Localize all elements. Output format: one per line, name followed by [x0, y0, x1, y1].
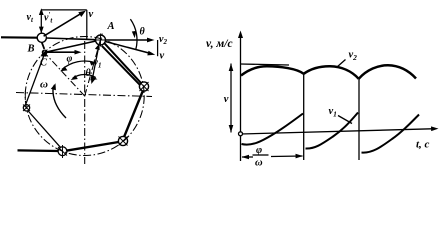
link bottomleft-left (second position, thin): [28, 111, 60, 147]
period boundary vertical 1: [303, 74, 305, 160]
svg-text:θ: θ: [86, 68, 92, 79]
roller B: [37, 33, 46, 42]
link bottomright-bottomleft: [67, 142, 119, 151]
joint C (filled mark): [40, 50, 47, 57]
svg-text:C: C: [40, 58, 48, 69]
v dimension line with arrows: [230, 64, 232, 133]
roller left (second position): [23, 105, 29, 111]
vector v2 at A (horizontal): [106, 39, 152, 41]
vector v at B (diagonal): [44, 12, 84, 36]
roller A: [96, 35, 106, 45]
top chain run (incoming): [1, 36, 37, 39]
svg-text:θ: θ: [140, 27, 146, 38]
svg-text:A: A: [107, 21, 115, 32]
radius O-C (dash-dot): [42, 50, 85, 97]
parallelogram right side at A: [157, 40, 159, 56]
svg-text:v: v: [224, 94, 229, 105]
sprocket pitch circle (dash-dot): [25, 37, 144, 156]
horizontal component arrow at C: [47, 51, 78, 53]
svg-text:v: v: [89, 9, 94, 20]
v2 curve scallop 1: [241, 66, 304, 75]
tick at circle/axis intersection left: [24, 92, 26, 101]
angle arc theta (lower, at center): [73, 75, 96, 79]
svg-text:t, с: t, с: [416, 139, 430, 151]
v2 curve scallop 3: [359, 65, 416, 79]
svg-text:v, м/с: v, м/с: [206, 38, 233, 50]
radius O-A (dash-dot): [85, 34, 103, 97]
vector v1 at A (along radius toward O): [92, 46, 99, 82]
parallelogram top side: [41, 9, 87, 11]
period boundary vertical 2: [358, 79, 360, 160]
roller right: [139, 82, 148, 91]
svg-text:ω: ω: [255, 158, 263, 169]
v1 sawtooth 1: [242, 114, 304, 145]
svg-text:ω: ω: [40, 79, 48, 91]
link C-A: [47, 41, 96, 52]
phi/omega dimension arrows: [242, 156, 253, 158]
center vertical axis: [84, 41, 86, 164]
roller bottom-right: [118, 136, 127, 145]
roller bottom-left: [58, 147, 67, 156]
v level line: [241, 64, 290, 65]
v2 curve scallop 2: [304, 66, 359, 79]
angle arc phi (between O-C and O-A radii): [62, 61, 95, 69]
bottom chain run (outgoing): [18, 149, 59, 152]
parallelogram right side: [86, 10, 88, 39]
svg-text:v′t: v′t: [44, 11, 53, 25]
svg-text:v1: v1: [329, 106, 337, 119]
svg-text:v1: v1: [94, 58, 102, 70]
link right-bottomright: [124, 91, 143, 137]
x axis: [241, 129, 437, 134]
svg-text:v2: v2: [159, 34, 167, 46]
link A-right (double plate): [104, 43, 142, 84]
link B-A: [46, 38, 96, 40]
y axis: [240, 33, 242, 161]
center horizontal axis: [16, 93, 152, 97]
svg-text:B: B: [27, 44, 35, 55]
vector v at A (diagonal): [106, 42, 153, 54]
v1 sawtooth 3: [362, 115, 420, 153]
omega rotation arrow: [53, 85, 66, 118]
v1 sawtooth 2: [306, 113, 359, 149]
svg-text:v: v: [160, 51, 165, 62]
link left-C (second position, thin): [26, 55, 44, 104]
velocity parallelogram at B: left side with vt up / v't down arrows: [40, 10, 42, 32]
link B-C: [42, 42, 45, 49]
svg-text:φ: φ: [67, 54, 73, 65]
origin circle: [239, 132, 243, 136]
svg-text:v2: v2: [349, 50, 358, 63]
svg-text:vt: vt: [27, 12, 34, 24]
angle arc theta at A (upper): [130, 19, 137, 49]
